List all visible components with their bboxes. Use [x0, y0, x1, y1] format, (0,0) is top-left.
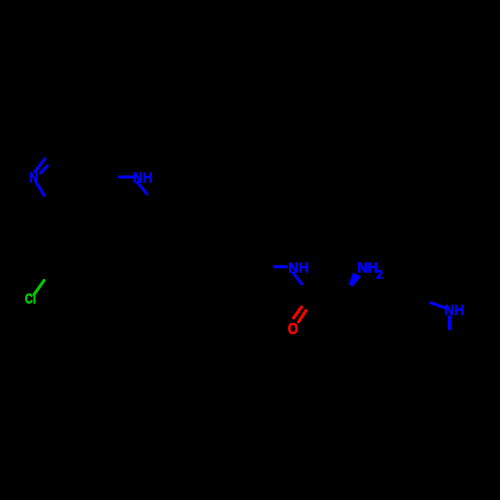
bond N1=C2 double bond, main line (blue half)	[35, 159, 45, 172]
bond N1=C2 double bond, inner line (blue half)	[41, 166, 48, 173]
svg-text:NH: NH	[444, 303, 464, 319]
bond C=O double bond, inner line (red half)	[299, 311, 307, 323]
bond C4-N (amine) horizontal blue half	[120, 176, 133, 179]
svg-text:2: 2	[376, 267, 383, 281]
bond N2-CH2 diagonal blue half	[138, 183, 147, 194]
bond CH2-N (amide) horizontal blue half	[274, 265, 286, 268]
bond N3-C(=O) diagonal blue half	[293, 273, 302, 284]
bond CH2-N5 diagonal blue half	[431, 303, 446, 308]
svg-text:NH: NH	[133, 171, 153, 187]
bond Cl1-C7 green half	[34, 281, 44, 295]
bond N1-C8a single (blue half)	[36, 182, 44, 195]
svg-text:NH: NH	[288, 261, 309, 277]
bond C-N4 stereo wedge (blue half, trapezoid)	[349, 272, 361, 286]
svg-text:NH: NH	[357, 261, 378, 277]
svg-text:O: O	[288, 321, 298, 338]
bond C=O double bond, main line (red half)	[294, 307, 302, 318]
bond N5-CH3 vertical blue half	[448, 317, 451, 329]
